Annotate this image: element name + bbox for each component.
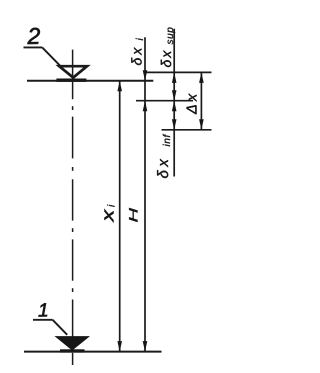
centerline dot 2: [72, 167, 74, 171]
centerline dash 3: [72, 179, 74, 220]
leader line to benchmark 2: [42, 47, 60, 65]
centerline tail below bottom line: [72, 353, 74, 365]
label delta x inf: [157, 134, 170, 178]
bottom ground line: [24, 351, 162, 353]
arrow delta x sup top: [172, 72, 177, 83]
label delta x_i: [131, 38, 143, 65]
true height line: [136, 100, 193, 102]
centerline dash 4: [72, 239, 74, 280]
arrow delta x sup bottom: [172, 90, 177, 101]
label 1 underline: [33, 319, 53, 321]
top ground line: [27, 80, 153, 82]
lower limit line x inf: [162, 129, 212, 131]
label x_i: [104, 205, 114, 223]
label 1: [38, 303, 47, 316]
centerline dot 1: [72, 106, 74, 110]
centerline dash 2: [72, 117, 74, 159]
arrow x_i top: [117, 81, 122, 92]
centerline dot 3: [72, 228, 74, 232]
centerline dash 5: [72, 300, 74, 339]
upper limit line x sup: [145, 71, 212, 73]
dimension line x_i: [119, 81, 121, 352]
benchmark 2 symbol (open triangle on support bar): [56, 66, 87, 82]
leader line to benchmark 1: [53, 320, 68, 335]
arrow delta x bottom: [199, 119, 204, 130]
dimension line delta x sup and delta x inf: [173, 29, 175, 177]
label H: [129, 208, 137, 222]
arrow delta x_i (down onto top ground line): [143, 70, 148, 81]
dimension line delta x tolerance: [200, 72, 202, 129]
arrow delta x inf bottom: [172, 119, 177, 130]
arrow x_i bottom: [117, 341, 122, 352]
arrow delta x top: [199, 72, 204, 83]
label 2 underline: [24, 46, 43, 48]
arrow H bottom: [143, 341, 148, 352]
label delta x sup: [161, 28, 175, 68]
dimension line H with delta x_i extension: [144, 37, 146, 351]
label 2: [27, 28, 40, 44]
arrow delta x inf top: [172, 101, 177, 112]
label delta x: [187, 93, 197, 114]
centerline dot 4: [72, 288, 74, 292]
centerline dash 1: [72, 50, 74, 100]
benchmark 1 symbol (filled triangle on support bar): [57, 337, 88, 353]
arrow H top (up onto true height line): [143, 101, 148, 112]
